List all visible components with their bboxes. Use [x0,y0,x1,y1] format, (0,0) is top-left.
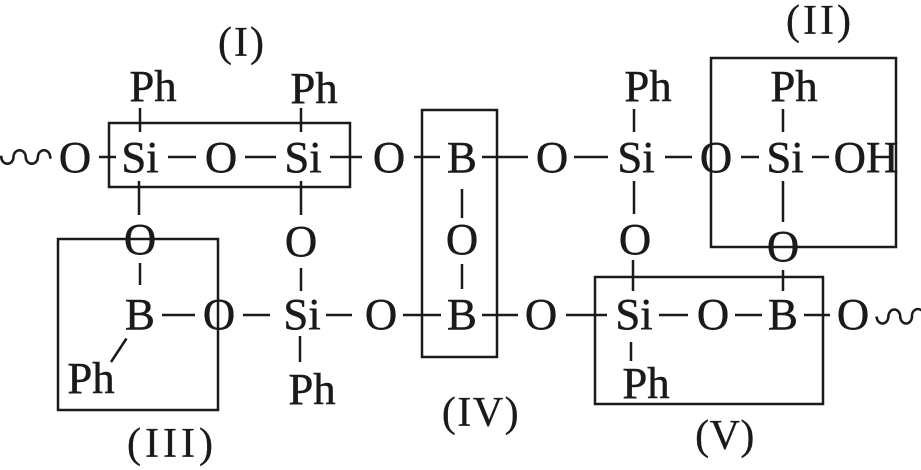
bond O14-B4 [735,314,762,317]
svg-text:Si: Si [283,289,320,339]
svg-text:B: B [125,289,155,339]
bond Ph2-Si2 [300,108,303,132]
svg-text:(V): (V) [695,413,755,459]
svg-text:Ph: Ph [622,358,669,408]
bond O13-Si6 [566,314,607,317]
svg-text:O: O [205,132,237,182]
bond O9-Si6 vertical [632,260,635,291]
bond Si2-O7 vertical [300,181,303,215]
svg-text:OH: OH [834,132,899,182]
svg-text:Si: Si [615,289,652,339]
svg-text:Ph: Ph [624,61,671,111]
svg-text:O: O [619,214,651,264]
svg-text:O: O [837,289,869,339]
bond B2-Ph7 diagonal [111,339,127,363]
svg-text:(IV): (IV) [442,390,520,436]
bond Si6-Ph6 vertical [630,342,633,361]
svg-text:O: O [697,289,729,339]
svg-text:B: B [447,132,477,182]
bond O4-Si3 [574,156,608,159]
bond Si3-O5 [665,156,692,159]
bond Si5-Ph5 vertical [299,336,302,362]
bond O8-B3 vertical [461,264,464,289]
bond Si6-O14 [659,314,688,317]
svg-text:Si: Si [766,132,803,182]
bond Si2-O3 [330,156,362,159]
svg-text:(I): (I) [218,20,266,66]
bond B4-O15 [804,314,830,317]
bond O5-Si4 [741,156,759,159]
bond O6-B2 vertical [139,263,142,285]
bond O10-B4 vertical [782,270,785,291]
bond O12-B3 [403,314,441,317]
wavy polymer-continuation left [0,150,51,164]
svg-text:B: B [768,289,798,339]
bond O11-Si5 [243,314,270,317]
svg-text:O: O [285,216,317,266]
bond Si1-O6 vertical [138,181,141,215]
bond Ph3-Si3 [633,109,636,132]
wavy polymer-continuation right [877,309,921,323]
svg-text:(II): (II) [786,0,854,44]
bond O1-Si1 [99,156,116,159]
svg-text:Ph: Ph [290,63,337,113]
svg-text:Si: Si [121,132,158,182]
svg-text:O: O [536,132,568,182]
bond B1-O4 [482,156,528,159]
svg-text:Ph: Ph [129,61,176,111]
svg-text:O: O [203,289,235,339]
svg-text:O: O [446,214,478,264]
bond B3-O13 [482,314,518,317]
svg-text:O: O [373,132,405,182]
bond Ph4-Si4 [782,109,785,132]
bond Si4-OH [812,156,829,159]
svg-text:O: O [767,221,799,271]
bond Si4-O10 vertical [782,181,785,222]
svg-text:Si: Si [617,132,654,182]
svg-text:O: O [525,289,557,339]
box (V) around Si-O-B unit [595,277,823,404]
svg-text:Ph: Ph [770,61,817,111]
svg-text:Ph: Ph [67,353,114,403]
svg-text:Ph: Ph [288,364,335,414]
bond O7-Si5 vertical [300,268,303,291]
bond O2-Si2 [245,156,276,159]
svg-text:O: O [59,132,91,182]
svg-text:(III): (III) [127,421,217,467]
svg-text:O: O [124,214,156,264]
svg-text:O: O [365,289,397,339]
box (III) around O-B-Ph unit [58,239,218,410]
bond B2-O11 [162,314,195,317]
bond Ph1-Si1 [139,108,142,132]
bond Si3-O9 vertical [633,181,636,214]
box (I) around Si-O-Si [109,123,350,187]
bond B1-O8 vertical [461,189,464,218]
bond Si1-O2 [168,156,196,159]
svg-text:Si: Si [284,132,321,182]
box (II) around Ph-Si-OH unit [711,58,896,247]
bond O3-B1 [414,156,440,159]
svg-text:O: O [700,132,732,182]
bond Si5-O12 [326,314,352,317]
box (IV) around B-O-B unit [422,110,497,357]
svg-text:B: B [447,289,477,339]
